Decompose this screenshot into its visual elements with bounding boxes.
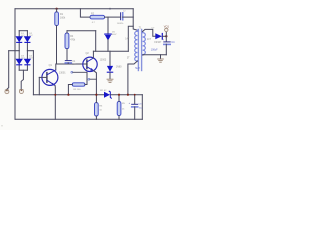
node dot Q1 emitter cross	[54, 94, 56, 96]
resistor R6	[95, 103, 103, 116]
svg-text:14T: 14T	[125, 39, 130, 41]
wire bridge mid right stub	[27, 50, 33, 52]
resistor R2	[90, 13, 105, 25]
node dot bus at R1	[56, 8, 58, 10]
wire drop x95	[95, 31, 97, 52]
node dot R5 top	[118, 94, 120, 96]
wire top bus	[15, 8, 133, 10]
wire bridge mid left stub to AC rail	[9, 50, 20, 52]
wire C2 right	[123, 16, 134, 18]
wire collector line y51	[93, 50, 128, 52]
wire R1 top stub	[56, 9, 58, 12]
node dot Q2 emitter	[95, 94, 97, 96]
zener D5	[107, 51, 122, 79]
wire right drop to bottom bus	[141, 95, 143, 120]
svg-text:VO1: VO1	[164, 24, 170, 28]
svg-text:100uF: 100uF	[151, 49, 158, 52]
wire R6 top	[95, 95, 97, 103]
node dot output	[165, 35, 167, 37]
wire Q1 collector riser	[55, 64, 57, 70]
capacitor C1	[65, 61, 76, 66]
wire bridge right column lower	[26, 51, 28, 59]
wire Q1 base drop	[38, 77, 40, 94]
wire bridge right column upper	[26, 31, 28, 37]
wire bottom bus	[15, 118, 142, 120]
capacitor C3	[129, 95, 143, 120]
svg-text:103/1k: 103/1k	[117, 23, 124, 25]
transformer T1	[125, 27, 151, 71]
wire bridge left column upper	[18, 31, 20, 37]
svg-text:W1 62: W1 62	[100, 90, 107, 92]
wire left AC rail to terminal T1	[7, 51, 9, 90]
wire ground line y54	[144, 54, 167, 56]
wire R5 top	[118, 95, 120, 102]
zener W1	[100, 90, 111, 98]
svg-text:R3 100: R3 100	[73, 89, 81, 91]
wire left rail	[14, 9, 16, 120]
wire common line y94 right part	[111, 94, 143, 96]
resistor R3	[72, 83, 85, 91]
wire R4 top	[66, 31, 68, 33]
wire R1 bottom vertical to base line	[56, 26, 58, 64]
terminal T1	[5, 90, 9, 94]
diode D2	[24, 33, 33, 42]
node dot R3 drop	[67, 94, 69, 96]
wire R2 left riser to bus	[80, 9, 90, 17]
node dot winding drop	[127, 94, 129, 96]
stub S2 with pin circle	[88, 78, 96, 80]
svg-text:5uH: 5uH	[135, 67, 140, 70]
resistor R4	[65, 33, 76, 49]
resistor R1	[55, 12, 66, 26]
transistor Q1	[42, 64, 66, 85]
wire bus drop to transformer	[133, 9, 137, 31]
primary winding	[135, 30, 138, 61]
wire Q2 emitter drop	[94, 71, 97, 95]
wire bridge left column lower	[18, 51, 20, 59]
svg-text:223: 223	[72, 64, 75, 66]
svg-text:4007: 4007	[29, 35, 33, 37]
wire D6 bottom	[107, 40, 109, 51]
wire secondary bottom lead	[142, 54, 145, 56]
wire right rail down to common line	[32, 51, 34, 95]
diode D1	[16, 33, 25, 42]
wire line y30 from R4 to drop	[67, 30, 96, 32]
secondary winding	[143, 32, 146, 55]
wire C2 left	[108, 16, 121, 18]
svg-text:470k: 470k	[70, 39, 76, 41]
wire R2 right to D6	[105, 17, 108, 34]
diode D4	[24, 56, 33, 65]
svg-text:160k: 160k	[60, 16, 66, 19]
wire R3 left drop	[68, 85, 72, 95]
wire D7 to node	[162, 35, 166, 37]
wire Q2 collector riser	[92, 51, 94, 58]
svg-text:14T: 14T	[147, 39, 152, 41]
svg-text:4007: 4007	[29, 57, 33, 59]
capacitor C2	[117, 10, 127, 24]
wire bridge bottom line	[19, 69, 27, 71]
terminal VO1	[164, 24, 170, 36]
svg-text:Q1: Q1	[49, 64, 53, 67]
wire R5 bottom	[118, 116, 120, 120]
svg-text:1N60: 1N60	[116, 65, 122, 68]
wire Q1 base	[39, 76, 47, 78]
wire L1 base line to Q2	[57, 63, 87, 65]
svg-text:FR107: FR107	[154, 42, 162, 44]
resistor R5	[117, 101, 125, 115]
wire bridge bottom drop to terminal T2	[21, 70, 23, 89]
svg-text:13003: 13003	[100, 58, 107, 61]
wire common line y94 left part	[33, 94, 104, 96]
wire bridge top line	[19, 30, 27, 32]
wire R3 right riser	[85, 72, 87, 84]
diode D6	[105, 31, 118, 40]
ground G2	[158, 55, 164, 62]
wire C1 bottom stub to base line	[67, 63, 69, 64]
ground G1	[107, 79, 113, 82]
wire R4 bottom to C1	[66, 49, 68, 61]
diode D3	[16, 56, 25, 65]
capacitor C4	[151, 36, 175, 55]
diode D7 output	[152, 27, 163, 44]
wire primary bottom lead and drop	[128, 61, 137, 95]
wire R6 bottom	[95, 116, 97, 119]
node dot bus small	[109, 8, 111, 10]
wire riser x128 to transformer top node	[128, 26, 133, 51]
transistor Q2	[83, 52, 107, 72]
svg-text:13001: 13001	[59, 71, 66, 74]
stub S1 with pin circle	[71, 71, 87, 73]
wire Q1 emitter drop	[54, 85, 56, 119]
core	[137, 30, 139, 71]
terminal T2	[19, 90, 23, 94]
node dot C3 top	[134, 94, 136, 96]
wire secondary top lead	[143, 29, 156, 36]
